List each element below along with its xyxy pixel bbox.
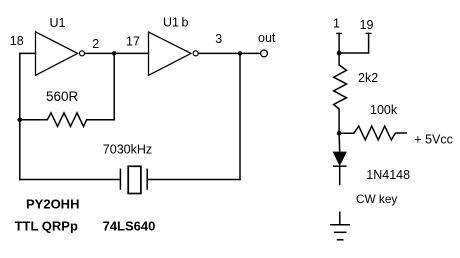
diode D1 1N4148 <box>334 152 346 165</box>
svg-text:U1: U1 <box>50 16 66 30</box>
ground bar 1 <box>331 224 350 226</box>
svg-text:1: 1 <box>333 17 340 31</box>
svg-text:2k2: 2k2 <box>358 71 378 85</box>
out terminal circle <box>261 50 268 57</box>
resistor R2 2k2 <box>334 53 347 133</box>
resistor R3 100k <box>339 126 406 140</box>
wire left vertical <box>19 53 21 179</box>
svg-text:CW key: CW key <box>356 192 397 206</box>
svg-text:1N4148: 1N4148 <box>366 168 410 182</box>
ground bar 2 <box>335 231 346 233</box>
node junction 100k/diode <box>337 131 342 136</box>
svg-text:out: out <box>258 31 276 45</box>
node junction pins 1-19 <box>337 51 342 56</box>
wire node to diode anode <box>338 133 341 152</box>
wire pin 18 to U1 input <box>20 52 36 54</box>
svg-text:560R: 560R <box>46 89 79 104</box>
svg-text:3: 3 <box>215 32 222 46</box>
svg-text:PY2OHH: PY2OHH <box>26 196 79 211</box>
wire bottom left <box>20 179 119 181</box>
op-amp U1b (inverter triangle) <box>149 32 192 75</box>
node junction 560R left <box>18 118 23 123</box>
wire U1 output to U1b input <box>85 52 149 54</box>
svg-text:+ 5Vcc: + 5Vcc <box>414 133 453 147</box>
svg-text:7030kHz: 7030kHz <box>103 142 152 156</box>
node junction pin2 <box>112 51 117 56</box>
ground stub <box>339 212 341 224</box>
U1b output bubble <box>193 51 198 56</box>
svg-text:74LS640: 74LS640 <box>103 219 156 234</box>
op-amp U1 (inverter triangle) <box>36 32 78 76</box>
wire U1b output to out <box>198 52 260 54</box>
node junction pin3 <box>238 51 243 56</box>
wire right vertical <box>239 53 241 179</box>
resistor R1 560R <box>20 113 114 127</box>
wire below diode <box>339 166 341 184</box>
wire pin 19 down and left <box>339 33 369 53</box>
svg-text:U1 b: U1 b <box>163 16 188 30</box>
crystal X1 left plate <box>119 169 121 189</box>
wire pin 1 down <box>338 33 340 53</box>
ground bar 3 <box>338 239 343 241</box>
svg-text:2: 2 <box>92 37 99 51</box>
diode cathode bar <box>334 165 346 167</box>
svg-text:19: 19 <box>360 18 374 32</box>
U1 output bubble <box>80 51 85 56</box>
pin 1 tick <box>337 32 342 34</box>
svg-text:18: 18 <box>10 34 24 48</box>
crystal X1 right plate <box>146 169 148 189</box>
wire crystal to right vertical <box>149 179 240 181</box>
svg-text:100k: 100k <box>370 103 398 117</box>
crystal X1 body <box>128 166 141 193</box>
pin 19 tick <box>366 32 371 34</box>
svg-text:17: 17 <box>126 35 140 49</box>
wire 560R up to node <box>113 53 115 119</box>
svg-text:TTL QRPp: TTL QRPp <box>15 219 78 234</box>
